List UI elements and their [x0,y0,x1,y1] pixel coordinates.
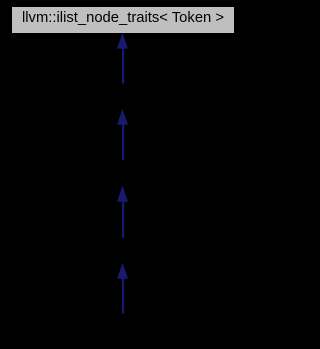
arrow 2 [117,109,128,160]
arrow 4 [117,263,128,314]
arrow 3 [117,186,128,238]
inheritance arrows [0,0,245,349]
node llvm::ilist_node_traits< Token > [11,6,235,34]
arrow 1 (to llvm::ilist_node_traits) [117,33,128,84]
